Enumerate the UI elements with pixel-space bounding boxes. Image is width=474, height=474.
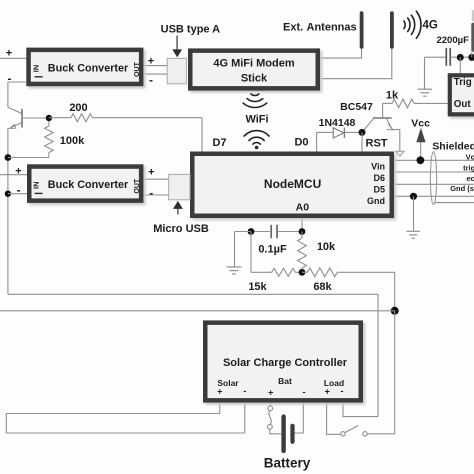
svg-text:-: - bbox=[341, 386, 344, 396]
svg-text:IN: IN bbox=[32, 181, 41, 189]
svg-text:15k: 15k bbox=[248, 281, 267, 293]
svg-text:+: + bbox=[217, 387, 222, 397]
svg-text:Vin: Vin bbox=[371, 162, 385, 172]
svg-text:Stick: Stick bbox=[241, 73, 268, 85]
svg-text:-: - bbox=[243, 386, 246, 396]
svg-text:Solar Charge Controller: Solar Charge Controller bbox=[223, 357, 348, 369]
svg-text:+: + bbox=[148, 166, 154, 178]
svg-text:trig: trig bbox=[463, 164, 474, 173]
svg-text:+: + bbox=[15, 165, 21, 177]
svg-text:WiFi: WiFi bbox=[245, 113, 268, 125]
svg-text:4G: 4G bbox=[423, 20, 438, 32]
svg-text:-: - bbox=[303, 387, 306, 397]
svg-text:Shielded C: Shielded C bbox=[432, 141, 474, 153]
svg-text:D6: D6 bbox=[373, 173, 385, 183]
svg-text:+: + bbox=[325, 387, 330, 397]
svg-text:1N4148: 1N4148 bbox=[319, 117, 356, 129]
svg-text:2200µF: 2200µF bbox=[436, 35, 469, 46]
svg-text:IN: IN bbox=[32, 65, 41, 73]
svg-text:RST: RST bbox=[366, 137, 388, 149]
svg-text:Ext.: Ext. bbox=[283, 22, 303, 34]
svg-text:OUT: OUT bbox=[134, 178, 141, 194]
svg-text:Gnd (shield): Gnd (shield) bbox=[450, 184, 474, 193]
svg-text:+: + bbox=[268, 388, 273, 398]
svg-text:A0: A0 bbox=[296, 201, 310, 213]
svg-text:0.1µF: 0.1µF bbox=[258, 244, 287, 256]
svg-text:OUT: OUT bbox=[134, 61, 141, 77]
svg-text:100k: 100k bbox=[60, 135, 85, 147]
svg-text:Vcc: Vcc bbox=[411, 118, 430, 130]
svg-text:Trig T: Trig T bbox=[454, 77, 474, 88]
svg-text:200: 200 bbox=[69, 102, 87, 114]
svg-text:D7: D7 bbox=[212, 137, 226, 149]
svg-text:Buck Converter: Buck Converter bbox=[48, 179, 129, 191]
svg-text:+: + bbox=[6, 48, 12, 60]
svg-text:echo: echo bbox=[466, 174, 474, 183]
svg-text:NodeMCU: NodeMCU bbox=[264, 177, 321, 191]
svg-text:Micro USB: Micro USB bbox=[153, 223, 209, 235]
svg-text:Vcc: Vcc bbox=[466, 153, 474, 162]
svg-text:Antennas: Antennas bbox=[307, 22, 357, 34]
svg-text:Buck Converter: Buck Converter bbox=[48, 63, 129, 75]
svg-text:-: - bbox=[8, 72, 12, 86]
svg-text:1k: 1k bbox=[386, 90, 399, 102]
svg-text:-: - bbox=[149, 73, 153, 87]
svg-text:+: + bbox=[148, 55, 154, 67]
svg-text:4G MiFi Modem: 4G MiFi Modem bbox=[213, 58, 295, 70]
svg-text:Out: Out bbox=[454, 99, 472, 110]
svg-text:Gnd: Gnd bbox=[367, 196, 385, 206]
svg-text:68k: 68k bbox=[313, 281, 332, 293]
svg-text:-: - bbox=[149, 186, 153, 200]
svg-text:USB type A: USB type A bbox=[161, 24, 221, 36]
svg-text:Battery: Battery bbox=[264, 455, 311, 470]
svg-text:-: - bbox=[17, 183, 21, 197]
svg-text:D0: D0 bbox=[294, 137, 308, 149]
svg-text:Bat: Bat bbox=[278, 376, 292, 386]
svg-text:10k: 10k bbox=[317, 241, 336, 253]
svg-text:BC547: BC547 bbox=[340, 101, 373, 113]
svg-text:D5: D5 bbox=[373, 185, 385, 195]
